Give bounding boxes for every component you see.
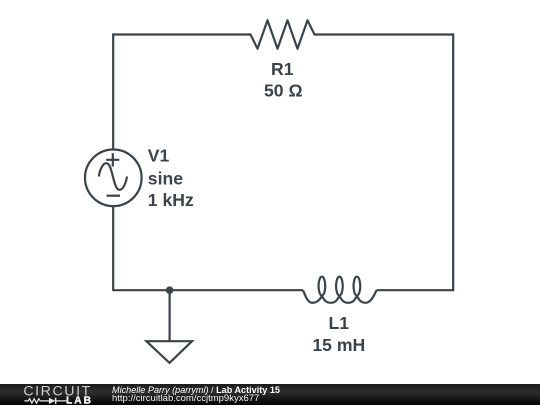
inductor L1 — [303, 277, 377, 303]
svg-text:sine: sine — [148, 169, 183, 189]
V1 minus sign — [107, 195, 121, 197]
footer url line 2 — [112, 394, 259, 404]
CircuitLab logo — [0, 384, 110, 405]
svg-text:R1: R1 — [271, 59, 294, 79]
wire: ground stub vertical — [169, 290, 171, 341]
svg-text:50 Ω: 50 Ω — [264, 81, 303, 101]
voltage source V1 circle — [85, 150, 142, 207]
svg-text:V1: V1 — [148, 146, 170, 166]
V1 sine wave — [99, 163, 127, 190]
wire: bottom-left horizontal + left lower vertical — [113, 206, 303, 290]
svg-text:L1: L1 — [329, 313, 350, 333]
wire: top-right horizontal + right vertical + bottom-right horizontal — [315, 35, 454, 291]
logo resistor zigzag + wire — [24, 399, 66, 403]
logo diode — [49, 398, 55, 404]
svg-text:15 mH: 15 mH — [312, 335, 365, 355]
footer bar — [0, 384, 540, 405]
ground symbol triangle — [146, 341, 192, 363]
svg-text:1 kHz: 1 kHz — [148, 190, 194, 210]
svg-text:LAB: LAB — [66, 395, 93, 405]
resistor R1 — [251, 20, 315, 48]
junction node dot — [166, 286, 174, 294]
V1 plus sign — [106, 153, 119, 166]
footer credit line 1 — [112, 386, 280, 395]
wire: top-left horizontal + left upper vertical — [113, 35, 250, 150]
